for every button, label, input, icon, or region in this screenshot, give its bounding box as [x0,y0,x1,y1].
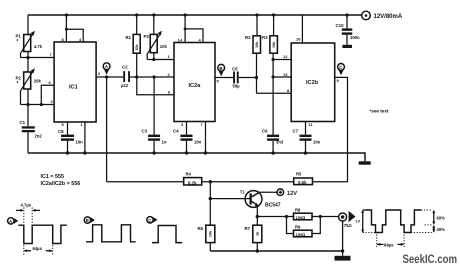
svg-text:SeekIC.com: SeekIC.com [403,253,458,266]
resistor R6 [198,225,215,251]
wire IC2a pin6 tie [137,77,174,95]
svg-text:C4: C4 [173,129,179,134]
svg-text:4.7µs: 4.7µs [21,203,32,208]
svg-text:12: 12 [283,54,288,59]
svg-text:10: 10 [296,37,301,42]
resistor R7 [245,225,262,242]
svg-text:C3: C3 [142,129,148,134]
wire IC2b pin11 stem [305,122,307,135]
wire P2 bottom / IC1 pins 2+6 node [21,89,55,105]
svg-text:P3: P3 [144,34,150,39]
capacitor C10 100n [336,13,360,44]
transistor T1 BC547 [240,190,281,209]
node B marker [218,64,225,76]
svg-text:12V/80mA: 12V/80mA [374,14,403,20]
svg-text:64µs: 64µs [384,243,394,248]
svg-text:R1: R1 [126,35,132,40]
svg-text:40%: 40% [437,227,446,232]
wire IC1 pin3 output [96,76,123,78]
svg-text:R3: R3 [262,35,268,40]
wire emitter down [256,206,258,251]
svg-text:10k: 10k [160,44,168,49]
svg-text:IC2b: IC2b [306,80,319,86]
svg-text:10n: 10n [194,140,202,145]
text IC equivalence [41,174,81,187]
waveform D staircase group [355,210,445,248]
svg-text:C7: C7 [293,129,299,134]
resistor R3 [262,13,277,134]
output arrow [349,211,356,222]
svg-text:*: * [17,81,19,87]
capacitor C8 10n [58,129,83,155]
output terminal 75R [339,213,352,228]
svg-text:1n: 1n [162,140,167,145]
svg-text:C8: C8 [58,129,64,134]
IC1 555 timer [54,42,96,122]
svg-text:R9: R9 [295,224,301,229]
svg-text:B: B [86,218,89,223]
wire IC1 pin5 stem [67,122,69,135]
resistor R2 [245,13,261,93]
svg-text:C5: C5 [232,67,238,72]
svg-text:14: 14 [178,37,183,42]
svg-text:C10: C10 [336,23,345,28]
wire IC2a pin3 stem [186,122,188,135]
svg-text:R6: R6 [198,226,204,231]
svg-text:10k: 10k [272,41,276,48]
svg-text:*: * [17,39,19,45]
svg-text:R8: R8 [295,207,301,212]
wire node A down to R4 [106,77,108,182]
resistor R4 8.2k [107,171,294,185]
capacitor C2 u22 [121,65,130,88]
svg-text:BC547: BC547 [265,202,281,208]
svg-text:10k: 10k [255,41,259,48]
resistor R9 150R [294,224,313,236]
IC2b 556 second half [291,43,335,122]
wire IC2a pin7 to ground [205,122,207,154]
svg-text:C2: C2 [122,65,128,70]
svg-text:100n: 100n [350,35,360,40]
resistor R8 150R [294,207,313,220]
svg-text:IC2a/IC2b = 556: IC2a/IC2b = 556 [41,181,81,187]
svg-text:50µ: 50µ [233,84,241,89]
wire IC2a pin5 output [215,77,233,79]
svg-text:12V: 12V [287,191,297,197]
svg-text:IC2a: IC2a [189,83,202,89]
svg-text:5.6k: 5.6k [298,180,307,185]
svg-text:C1: C1 [20,120,26,125]
wire ground rail [28,153,365,161]
resistor R5 5.6k [294,172,313,186]
waveform B group [84,217,135,242]
wire R3 to IC2b pin12 [273,59,291,61]
ground bar under C10 [342,45,352,48]
svg-text:150Ω: 150Ω [296,215,306,220]
capacitor C4 10n [173,129,202,155]
wire P3 bottom / IC2a pin1 [147,53,174,60]
wire IC1 pin1 to ground [84,122,86,153]
svg-text:20k: 20k [34,79,42,84]
wire rail corner down to P1 [27,15,29,35]
wire R2/C5 to IC2b pin8 trigger [257,92,292,94]
node C marker [338,64,345,76]
svg-text:IC1: IC1 [69,85,78,91]
svg-text:*see text: *see text [370,109,389,114]
svg-text:10k: 10k [209,230,213,237]
wire collector to +12V [260,191,277,193]
wire C5 to R2 junction [239,77,257,79]
+12V terminal [277,189,297,197]
capacitor C5 50u [232,67,240,89]
wire IC1 pins 8+4 reset bracket [62,13,84,42]
ground symbol right of rail [359,161,371,164]
svg-text:8.2k: 8.2k [188,180,197,185]
wire base [210,198,250,200]
wire IC2b pin10 reset stem [296,15,302,43]
svg-text:T1: T1 [240,190,246,195]
capacitor C3 1n [142,77,167,155]
wire P2 top stem [27,58,29,73]
svg-text:75Ω: 75Ω [344,223,352,228]
svg-text:2n2: 2n2 [35,133,43,138]
potentiometer P3 10k [144,13,168,59]
svg-text:13: 13 [283,72,288,77]
wire P1 bottom / IC1 pin7 node [21,52,55,58]
wire top supply rail [28,14,362,16]
svg-text:60%: 60% [437,216,446,221]
svg-text:R2: R2 [245,35,251,40]
waveform C group [147,217,183,243]
wire output down to ground [342,221,344,256]
svg-text:4.7k: 4.7k [34,44,43,49]
svg-text:10n: 10n [313,140,321,145]
capacitor C1 2n2 [20,105,43,154]
resistor R1 [126,13,141,77]
wire R3 to IC2b pin13 [273,76,291,78]
svg-text:R5: R5 [296,172,302,177]
potentiometer P1 4.7k [16,31,43,58]
wire R8/R9 merge to output [312,217,339,234]
svg-text:P2: P2 [16,76,22,81]
capacitor C6 3n3 [262,129,284,155]
svg-text:1V: 1V [355,218,360,223]
wire emitter tap to R8/R9 [257,217,293,234]
ground symbol under output [335,256,351,261]
svg-text:C6: C6 [262,129,268,134]
wire IC2b pin9 output to R5 [313,77,348,181]
svg-text:IC1 = 555: IC1 = 555 [41,174,65,180]
svg-text:150Ω: 150Ω [296,232,306,237]
svg-text:64µs: 64µs [33,246,43,251]
supply terminal 12V/80mA [362,11,403,20]
svg-text:P1: P1 [16,34,22,39]
svg-text:R7: R7 [245,226,251,231]
svg-text:10k: 10k [135,43,139,50]
waveform A group [8,203,67,255]
node A marker [103,63,110,75]
capacitor C7 10n [293,129,321,155]
potentiometer P2 20k [16,68,42,104]
svg-text:R4: R4 [186,171,192,176]
wire IC1 pin6 tie [41,85,54,104]
wire C2 to IC2a pin2 [130,76,174,78]
wire summing junction down to base [209,182,211,226]
svg-text:10n: 10n [76,140,84,145]
wire IC2a pins 14+4 bracket [178,13,204,42]
svg-text:µ22: µ22 [121,83,129,88]
IC2a 556 first half [174,43,215,122]
svg-text:3n3: 3n3 [276,140,284,145]
wire bottom rail [210,250,342,252]
